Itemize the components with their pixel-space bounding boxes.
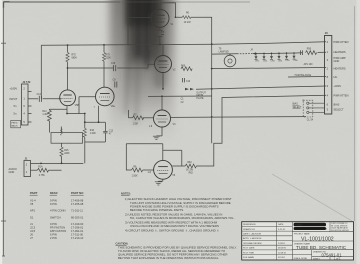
- svg-text:BEFORE TOUCHING INTERNAL PARTS: BEFORE TOUCHING INTERNAL PARTS.: [130, 208, 184, 212]
- svg-text:18P FASTON: 18P FASTON: [50, 229, 66, 233]
- svg-text:1.00K: 1.00K: [90, 133, 96, 135]
- svg-text:DATE: L JACKSON: DATE: L JACKSON: [243, 233, 262, 236]
- svg-text:17-094-01: 17-094-01: [71, 229, 84, 233]
- svg-text:V8a: V8a: [111, 106, 116, 108]
- svg-text:1.50K: 1.50K: [129, 24, 135, 26]
- svg-text:AP1 100: AP1 100: [304, 63, 314, 66]
- svg-text:C15: C15: [111, 63, 116, 65]
- svg-text:DATE: DATE: [278, 223, 284, 226]
- svg-text:C12: C12: [109, 130, 114, 132]
- svg-text:PLATE: PLATE: [196, 97, 204, 100]
- svg-text:SHEET: SHEET: [313, 259, 320, 261]
- svg-text:06/13/91: 06/13/91: [278, 248, 287, 250]
- svg-text:1K 2W: 1K 2W: [184, 22, 192, 24]
- svg-text:680K: 680K: [72, 58, 78, 60]
- svg-text:REFERENCE: REFERENCE: [243, 224, 256, 226]
- svg-text:PWR ATTEN: PWR ATTEN: [334, 93, 349, 97]
- svg-text:PLOT TIME: PLOT TIME: [243, 252, 255, 254]
- svg-text:DESC: DESC: [50, 191, 58, 195]
- svg-text:HU: HU: [334, 75, 338, 79]
- svg-text:FULLERTON CA 92631: FULLERTON CA 92631: [331, 229, 349, 232]
- svg-text:R62: R62: [187, 162, 192, 164]
- svg-text:R56: R56: [307, 49, 312, 51]
- svg-text:R62: R62: [189, 173, 194, 175]
- svg-text:10:28:31: 10:28:31: [278, 252, 287, 254]
- svg-text:VL-1001/1002: VL-1001/1002: [301, 236, 334, 242]
- svg-text:1K 2W: 1K 2W: [186, 170, 194, 172]
- svg-text:R75: R75: [72, 55, 77, 57]
- svg-text:HEATERS: HEATERS: [334, 67, 346, 71]
- svg-text:71-011-11: 71-011-11: [71, 209, 83, 213]
- svg-text:BACK: BACK: [12, 125, 18, 128]
- svg-text:J6: J6: [30, 233, 33, 237]
- svg-text:PLOT DATE: PLOT DATE: [243, 247, 255, 250]
- svg-text:CL-24: CL-24: [307, 120, 314, 122]
- svg-text:17-036-01: 17-036-01: [71, 226, 84, 230]
- svg-text:+160V: +160V: [10, 87, 18, 91]
- svg-text:J2,3: J2,3: [30, 226, 36, 230]
- svg-text:J4,5: J4,5: [30, 229, 36, 233]
- svg-text:C14: C14: [37, 94, 42, 96]
- svg-text:9 PIN: 9 PIN: [50, 198, 57, 202]
- svg-text:17-455-08: 17-455-08: [71, 202, 84, 206]
- svg-text:+400V: +400V: [334, 84, 342, 88]
- svg-text:SELECT: SELECT: [334, 108, 345, 112]
- svg-text:R14: R14: [38, 167, 43, 169]
- svg-text:SCALE: NONE: SCALE: NONE: [294, 257, 308, 260]
- svg-text:HUM BALANCE: HUM BALANCE: [295, 74, 312, 77]
- svg-text:2 PIN: 2 PIN: [50, 236, 57, 240]
- svg-text:17-311-00: 17-311-00: [71, 233, 84, 237]
- svg-text:GND: GND: [334, 59, 340, 63]
- svg-text:5-21-91: 5-21-91: [278, 229, 286, 231]
- svg-text:SWITCH: SWITCH: [50, 215, 61, 219]
- svg-text:1.50K: 1.50K: [132, 176, 138, 178]
- svg-text:AP1: AP1: [30, 209, 36, 213]
- svg-text:5/13/91: 5/13/91: [278, 243, 286, 245]
- svg-text:LAMP BD: LAMP BD: [219, 50, 229, 53]
- svg-text:TUBE BD. SCHEMATIC: TUBE BD. SCHEMATIC: [296, 245, 347, 250]
- svg-text:4) CIRCUIT GROUND ⏚, SWITCH GR: 4) CIRCUIT GROUND ⏚, SWITCH GROUND ⏚, CH…: [125, 228, 219, 233]
- svg-text:ORIGINAL REVIEW: ORIGINAL REVIEW: [243, 242, 262, 245]
- svg-text:FILE NAME: FILE NAME: [243, 256, 255, 259]
- svg-text:17-019-00: 17-019-00: [71, 222, 84, 226]
- svg-text:R10: R10: [90, 130, 95, 132]
- svg-text:V5B: V5B: [75, 105, 80, 107]
- svg-text:075491-01: 075491-01: [322, 252, 343, 257]
- svg-text:BIAS: BIAS: [334, 103, 340, 107]
- svg-text:GND: GND: [9, 170, 15, 174]
- svg-text:R15: R15: [64, 150, 69, 152]
- svg-text:BEYOND THAT EXPLAINED IN THE O: BEYOND THAT EXPLAINED IN THE OPERATING I…: [118, 256, 219, 260]
- svg-text:17-210-10: 17-210-10: [71, 236, 84, 240]
- svg-text:17-456-98: 17-456-98: [71, 198, 84, 202]
- svg-text:R60: R60: [181, 65, 186, 67]
- svg-text:4.75K: 4.75K: [39, 175, 45, 177]
- svg-text:OSCILLOSCOPE AND 10 MEGOHM INP: OSCILLOSCOPE AND 10 MEGOHM INPUT DIGITAL…: [130, 224, 219, 228]
- svg-text:J1: J1: [30, 222, 33, 226]
- svg-text:Fender: Fender: [296, 225, 303, 227]
- svg-text:J2 5 M: J2 5 M: [22, 80, 30, 84]
- svg-text:1.4M: 1.4M: [42, 114, 47, 116]
- svg-text:DRAWN S.R: DRAWN S.R: [243, 228, 255, 231]
- svg-text:OUTPUT: OUTPUT: [196, 92, 206, 94]
- svg-text:PART NO: PART NO: [71, 191, 84, 195]
- svg-text:FROM: FROM: [196, 95, 203, 97]
- svg-text:J7: J7: [30, 236, 33, 240]
- svg-text:220K: 220K: [64, 153, 70, 155]
- svg-text:220K: 220K: [106, 58, 112, 60]
- svg-text:6 PIN: 6 PIN: [50, 233, 57, 237]
- svg-text:APPD: L JACKSON: APPD: L JACKSON: [243, 237, 262, 240]
- svg-text:S1: S1: [30, 215, 34, 219]
- svg-text:FEED: FEED: [12, 123, 18, 125]
- svg-text:9 PIN: 9 PIN: [50, 202, 57, 206]
- svg-text:INPUT: INPUT: [10, 97, 18, 101]
- svg-text:PWR ATTEN: PWR ATTEN: [334, 40, 349, 44]
- svg-text:NOTES:: NOTES:: [121, 191, 131, 195]
- svg-text:4 PIN CONN: 4 PIN CONN: [50, 209, 65, 213]
- svg-text:075491: 075491: [278, 257, 286, 259]
- svg-text:5%, CAPACITOR VALUES IN MICROF: 5%, CAPACITOR VALUES IN MICROFARADS, MIC…: [130, 216, 235, 220]
- svg-text:1 of 1: 1 of 1: [334, 257, 341, 261]
- svg-text:R79: R79: [106, 55, 111, 57]
- svg-text:C13: C13: [186, 81, 191, 83]
- svg-text:1.5M: 1.5M: [133, 124, 138, 126]
- svg-text:80-023-01: 80-023-01: [71, 215, 84, 219]
- svg-text:9 PIN: 9 PIN: [50, 222, 57, 226]
- svg-text:V1-4: V1-4: [30, 198, 36, 202]
- svg-text:PROJECT NAME: PROJECT NAME: [294, 233, 310, 236]
- svg-text:FR FASTON: FR FASTON: [50, 226, 65, 230]
- svg-text:V5: V5: [30, 202, 34, 206]
- svg-text:HEATERS: HEATERS: [334, 50, 346, 54]
- svg-text:R12: R12: [42, 111, 47, 113]
- svg-text:PART: PART: [30, 191, 38, 195]
